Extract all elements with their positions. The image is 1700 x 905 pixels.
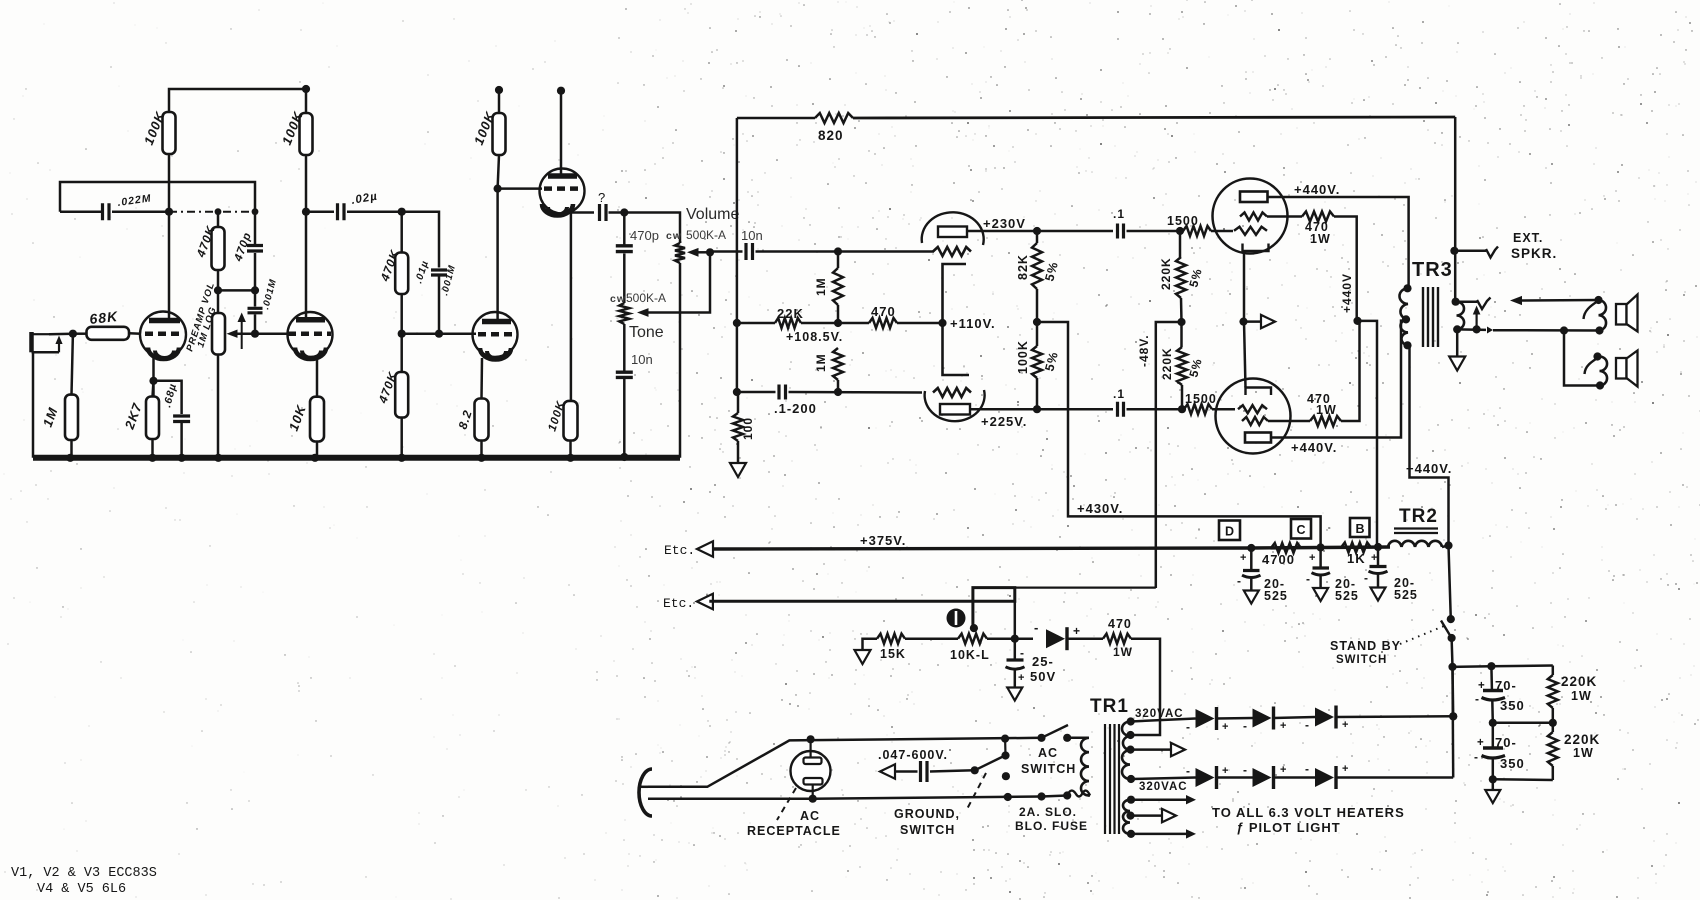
ground switch lever	[975, 756, 1004, 770]
svg-text:22K: 22K	[777, 306, 804, 321]
svg-text:-: -	[1474, 750, 1479, 764]
svg-text:+440V.: +440V.	[1406, 461, 1452, 476]
node ground switch common	[971, 766, 979, 774]
V2 plate bar	[296, 317, 325, 323]
svg-text:1M: 1M	[814, 353, 828, 372]
V3a cathode	[542, 204, 573, 216]
node rail 10K	[311, 454, 319, 462]
svg-text:+430V.: +430V.	[1077, 501, 1123, 516]
pentode V5	[1216, 379, 1291, 454]
wire wiper to V2 grid	[255, 332, 287, 335]
input jack	[29, 332, 34, 352]
resistor 8.2 V3b cathode	[475, 399, 489, 441]
wire V4 plate to TR3	[1268, 197, 1409, 288]
resistor 470 1W bias	[1103, 634, 1131, 644]
resistor 4700	[1271, 543, 1301, 553]
svg-text:+: +	[1240, 552, 1247, 564]
node lower plate/100K	[1033, 405, 1041, 413]
node spkr line branch	[1560, 326, 1568, 334]
svg-text:SWITCH: SWITCH	[1021, 762, 1076, 776]
node HV tap2	[1126, 731, 1134, 739]
triode V3b	[473, 312, 518, 357]
svg-text:Volume: Volume	[686, 206, 739, 223]
triode V3a	[540, 169, 585, 214]
svg-text:350: 350	[1500, 756, 1525, 771]
svg-text:Etc.: Etc.	[664, 543, 695, 558]
svg-text:Tone: Tone	[629, 324, 664, 341]
node cap70 top	[1487, 662, 1495, 670]
TR1 HV secondary	[1122, 722, 1130, 780]
svg-text:+: +	[1222, 765, 1229, 777]
node .1-200 lower grid	[834, 388, 842, 396]
V1 plate bar	[149, 318, 180, 324]
svg-text:525: 525	[1394, 588, 1418, 602]
resistor 470K grid leak	[400, 334, 403, 372]
ext spkr jack	[1454, 250, 1486, 253]
svg-text:GROUND,: GROUND,	[894, 807, 960, 821]
svg-text:1K: 1K	[1347, 551, 1366, 566]
svg-text:-: -	[1243, 763, 1248, 777]
svg-text:25-: 25-	[1032, 654, 1054, 669]
svg-text:350: 350	[1500, 698, 1525, 713]
wire standby vert	[1451, 667, 1454, 716]
wire -48V feed	[1156, 322, 1182, 588]
resistor 470K series	[400, 212, 403, 253]
node receptacle hot	[807, 735, 815, 743]
wire NFB vertical	[736, 118, 739, 392]
resistor 220K 1W upper	[1552, 666, 1555, 676]
svg-text:.1-200: .1-200	[774, 401, 817, 416]
node rail .68	[178, 454, 186, 462]
V1 cathode	[148, 348, 179, 360]
fuse 2A	[1037, 792, 1045, 800]
node PI cathode tap	[938, 319, 946, 327]
wire V3a grid	[498, 187, 542, 190]
tone wiper arrow	[637, 308, 649, 317]
wire AC neutral	[648, 797, 1042, 799]
node input grid junction	[69, 330, 77, 338]
V5 cathode box	[1246, 388, 1272, 396]
V3a plate bar	[548, 173, 577, 179]
wire V1 cathode lead	[152, 357, 155, 397]
node ac neutral under switch	[1004, 793, 1012, 801]
svg-text:+: +	[1371, 552, 1378, 564]
svg-text:10n: 10n	[741, 228, 763, 243]
node screens +440 junction	[1353, 317, 1361, 325]
svg-text:+: +	[1280, 764, 1287, 776]
node HV top	[1127, 717, 1135, 725]
node NFB/22K	[733, 319, 741, 327]
svg-text:10K-L: 10K-L	[950, 648, 990, 662]
lower ext jack	[1600, 357, 1608, 386]
resistor 100K 5%	[1036, 322, 1039, 346]
AC switch	[1037, 734, 1045, 742]
capacitor .1 lower	[1118, 402, 1124, 417]
capacitor 470p tone	[623, 213, 626, 245]
svg-text:ƒ PILOT LIGHT: ƒ PILOT LIGHT	[1236, 820, 1341, 835]
svg-text:V4 & V5 6L6: V4 & V5 6L6	[37, 882, 126, 897]
capacitor .022M feedback	[60, 182, 255, 212]
node wiper junction	[251, 330, 259, 338]
svg-text:-: -	[1306, 572, 1311, 586]
node box D	[1219, 521, 1240, 541]
resistor 470 PI tail	[838, 322, 869, 325]
svg-text:500K-A: 500K-A	[686, 228, 726, 242]
V2 grid dashes	[288, 331, 331, 336]
svg-text:SPKR.: SPKR.	[1511, 246, 1557, 261]
V3a grid dashes	[544, 186, 578, 191]
svg-text:+230V: +230V	[983, 216, 1026, 231]
wire PI upper plate	[967, 230, 1113, 233]
capacitor .1-200 coupling	[737, 391, 776, 394]
resistor 220K 5% upper	[1179, 231, 1182, 257]
capacitor 70-350 lower	[1492, 723, 1495, 747]
svg-text:cw: cw	[666, 230, 682, 242]
svg-text:220K: 220K	[1564, 732, 1600, 747]
svg-text:TR2: TR2	[1399, 506, 1438, 527]
capacitor 20-525 D	[1250, 548, 1253, 569]
svg-text:500K-A: 500K-A	[626, 291, 666, 305]
cathode arrow to heater ref	[1244, 320, 1262, 323]
svg-text:1500: 1500	[1185, 392, 1217, 406]
capacitor .001 wiper	[254, 290, 257, 306]
svg-text:AC: AC	[800, 809, 820, 823]
node TR3 sec top	[1452, 298, 1460, 306]
resistor 470 1W lower screen	[1268, 420, 1310, 423]
capacitor ground switch	[880, 764, 895, 778]
arrow Etc 375	[697, 541, 713, 556]
node TR2 right +440	[1444, 541, 1452, 549]
capacitor 10n tone bottom	[616, 372, 633, 377]
svg-text:RECEPTACLE: RECEPTACLE	[747, 824, 841, 838]
svg-text:+: +	[1478, 680, 1486, 692]
V4 plate box	[1240, 192, 1268, 203]
node rail 100K	[566, 454, 574, 462]
resistor 1500 upper	[1183, 226, 1211, 236]
TR3 core	[1423, 287, 1438, 347]
svg-text:820: 820	[818, 128, 844, 143]
svg-text:?: ?	[598, 190, 606, 205]
svg-text:Etc.: Etc.	[663, 596, 694, 611]
svg-text:1W: 1W	[1571, 689, 1592, 703]
svg-text:1W: 1W	[1113, 645, 1133, 659]
wire V3b plate lead	[496, 189, 499, 319]
potentiometer Tone 500K-A	[619, 303, 629, 324]
svg-text:AC: AC	[1038, 746, 1058, 760]
node ground switch top	[1001, 735, 1009, 743]
resistor 68K grid stopper	[73, 332, 87, 335]
svg-text:1W: 1W	[1310, 232, 1331, 246]
node volume wiper	[706, 248, 714, 256]
node bias wiper	[970, 624, 978, 632]
node C	[1317, 543, 1325, 551]
wire V3a cathode node	[570, 210, 573, 401]
node V1 cathode	[149, 377, 157, 385]
capacitor 20-525 C	[1319, 548, 1322, 567]
resistor 100K plate V2	[300, 113, 313, 155]
svg-text:+110V.: +110V.	[950, 316, 996, 331]
node V1/V2 B+ junction	[302, 85, 310, 93]
node rail 1M	[66, 454, 74, 462]
svg-text:SWITCH: SWITCH	[900, 823, 955, 837]
wire dash-dot grid-cap link	[169, 211, 255, 213]
resistor 100K plate V3b	[495, 86, 503, 94]
speaker 2	[1616, 358, 1627, 379]
resistor 82K 5%	[1036, 231, 1039, 243]
resistor 220K 5% lower	[1180, 322, 1183, 347]
wire V2 plate lead	[305, 212, 308, 318]
PI lower grid zigzag	[933, 388, 971, 397]
wire jack sleeve to ground rail	[32, 352, 35, 458]
node row1 out	[1449, 712, 1457, 720]
svg-text:220K: 220K	[1159, 257, 1173, 290]
node 220k mid	[1549, 719, 1557, 727]
svg-text:470: 470	[1108, 617, 1132, 631]
node 22K/470/1M	[834, 319, 842, 327]
V4 control grid	[1234, 227, 1267, 235]
capacitor 25-50V	[1014, 639, 1017, 659]
node V3b plate to V3a grid	[494, 185, 502, 193]
node 470p bottom	[251, 286, 259, 294]
volume wiper arrow	[687, 248, 699, 257]
main jack tip	[1456, 300, 1477, 303]
wire +440 TR2 to TR3 CT	[1410, 345, 1449, 545]
wire 470K-470p link	[218, 289, 255, 292]
svg-text:-: -	[1186, 764, 1191, 778]
wire B+ to node C	[1037, 322, 1321, 548]
node tone bottom rail	[620, 453, 628, 461]
wire V3a plate lead	[557, 87, 565, 95]
cathode bracket PI	[943, 264, 970, 375]
wire bias distribution	[709, 588, 1015, 629]
resistor 820 feedback	[737, 117, 815, 120]
node PI grid	[834, 247, 842, 255]
resistor 1M input	[72, 334, 73, 395]
node TR3 sec bottom	[1453, 325, 1461, 333]
svg-text:cw: cw	[610, 293, 626, 305]
resistor 100K cathode follower	[564, 401, 578, 441]
capacitor 70-350 upper	[1490, 666, 1493, 689]
resistor 22K	[737, 322, 775, 325]
svg-text:10n: 10n	[631, 352, 653, 367]
resistor 220K 1W lower	[1552, 723, 1555, 732]
node row1 junction	[1449, 712, 1457, 720]
capacitor .01 bright	[402, 212, 439, 268]
capacitor ? coupling	[600, 204, 607, 221]
resistor 2K7 V1 cathode	[153, 381, 154, 397]
node ground switch nc	[1002, 772, 1010, 780]
wire feedback takeoff vertical	[1454, 117, 1457, 302]
wire to lower ext jack	[1564, 331, 1600, 386]
node bias junction	[1011, 635, 1019, 643]
node main jack sleeve	[1473, 325, 1481, 333]
node NFB/.1-200	[733, 388, 741, 396]
resistor 10K V2 cathode	[310, 397, 324, 442]
svg-text:-48V.: -48V.	[1137, 334, 1151, 367]
node HV center	[1126, 746, 1134, 754]
wire TR3 sec bottom row	[1457, 328, 1486, 331]
svg-text:220K: 220K	[1160, 347, 1174, 380]
wire V5 cathode	[1244, 322, 1246, 388]
node 470K top	[215, 208, 222, 215]
cw direction arrow	[241, 319, 243, 349]
svg-text:525: 525	[1264, 589, 1288, 603]
wire grid row to V3b	[402, 332, 476, 335]
node rail 2K7	[148, 454, 156, 462]
V1 grid dashes	[145, 331, 184, 336]
node V1 plate / .022 tap	[165, 208, 173, 216]
svg-text:.047-600V.: .047-600V.	[878, 748, 948, 762]
wire main ground rail	[33, 455, 680, 461]
svg-text:-: -	[1020, 646, 1025, 660]
wire tone in to volume top	[624, 213, 680, 244]
capacitor 470p V1 interstage	[254, 212, 257, 246]
wire B+ rail V1/V2 plates	[169, 89, 306, 113]
wire V2 cathode lead	[316, 357, 319, 397]
V3b plate bar	[482, 319, 511, 325]
svg-text:-: -	[1305, 762, 1310, 776]
potentiometer 10K-L	[958, 634, 987, 644]
main jack arrow	[1475, 311, 1477, 329]
capacitor 20-525 B	[1377, 547, 1380, 565]
V4 screen grid	[1240, 213, 1267, 221]
svg-text:+440V: +440V	[1340, 273, 1354, 313]
svg-text:+: +	[1222, 721, 1229, 733]
svg-text:D: D	[1225, 525, 1234, 539]
svg-text:+: +	[1018, 672, 1025, 684]
node .02 out	[398, 208, 406, 216]
svg-text:70-: 70-	[1495, 678, 1517, 693]
triode PI upper	[922, 212, 984, 245]
svg-text:TR3: TR3	[1412, 259, 1453, 281]
svg-text:+: +	[1280, 720, 1287, 732]
node caps mid	[1489, 719, 1497, 727]
svg-text:+: +	[1073, 624, 1081, 638]
resistor 470 1W upper screen	[1267, 215, 1302, 218]
node box B	[1350, 518, 1370, 537]
svg-text:-: -	[1475, 692, 1480, 706]
V5 control grid	[1238, 405, 1267, 413]
svg-text:.1: .1	[1113, 207, 1125, 221]
upper ext jack	[1599, 300, 1607, 331]
capacitor 10n coupling PI	[710, 250, 743, 253]
svg-text:-: -	[1034, 620, 1039, 635]
capacitor .02 coupling V2-V3	[306, 210, 334, 213]
wire AC hot	[648, 738, 1042, 787]
node box C	[1291, 519, 1311, 539]
node TR3 primary mid	[1402, 315, 1410, 323]
svg-text:+: +	[1477, 737, 1485, 749]
wire V3b cathode lead	[480, 358, 483, 399]
wire V5 plate to TR3	[1271, 319, 1401, 437]
resistor 1M PI bias lower	[833, 348, 843, 380]
PI lower plate box	[940, 404, 970, 415]
wire heater ct arrow	[1131, 814, 1163, 817]
svg-text:-: -	[1237, 574, 1242, 588]
wire +375V rail	[713, 547, 1390, 549]
wire row2 to standby rail	[1451, 667, 1454, 778]
pentode V4	[1213, 179, 1288, 254]
V4 cathode box	[1243, 244, 1269, 252]
capacitor .68 V1 bypass	[154, 381, 182, 414]
svg-text:BLO. FUSE: BLO. FUSE	[1015, 819, 1088, 833]
wire ext line arrow	[1517, 299, 1599, 302]
triode V2	[288, 312, 333, 357]
svg-text:+440V.: +440V.	[1294, 182, 1340, 197]
svg-text:4700: 4700	[1262, 552, 1295, 567]
V3b grid dashes	[478, 332, 514, 337]
node .1/220K upper	[1176, 227, 1184, 235]
svg-text:SWITCH: SWITCH	[1336, 654, 1387, 666]
resistor 1M PI bias upper	[837, 252, 840, 269]
node caps bottom	[1489, 775, 1497, 783]
wiper arrow preamp vol	[227, 330, 238, 338]
node rail pot	[214, 454, 222, 462]
resistor 100K plate V1	[163, 112, 176, 154]
TR1 core	[1105, 724, 1119, 834]
svg-text:C: C	[1297, 523, 1306, 537]
node .1/220K lower	[1178, 405, 1186, 413]
svg-text:50V: 50V	[1030, 669, 1056, 684]
capacitor .1 upper	[1118, 224, 1124, 239]
svg-text:-: -	[1305, 718, 1310, 732]
AC receptacle	[791, 751, 831, 791]
svg-text:82K: 82K	[1016, 254, 1030, 280]
node 82K bottom B+ tap	[1033, 318, 1041, 326]
svg-text:100K: 100K	[1016, 340, 1030, 374]
TR1 heater winding	[1123, 800, 1130, 834]
node bright cap bottom	[435, 330, 443, 338]
svg-text:V1, V2 & V3 ECC83S: V1, V2 & V3 ECC83S	[11, 866, 157, 881]
node HV bottom	[1127, 775, 1135, 783]
svg-text:+: +	[1342, 763, 1349, 775]
node 470K bottom	[214, 286, 222, 294]
V2 cathode	[295, 348, 326, 360]
svg-text:-: -	[1243, 719, 1248, 733]
svg-text:-: -	[1186, 720, 1191, 734]
V3b cathode	[480, 348, 511, 359]
node D	[1247, 544, 1255, 552]
svg-text:525: 525	[1335, 589, 1359, 603]
svg-text:220K: 220K	[1561, 674, 1597, 689]
potentiometer Volume 500K-A	[675, 243, 685, 263]
svg-text:-: -	[1364, 571, 1369, 585]
triode V1	[140, 312, 186, 358]
svg-text:+108.5V.: +108.5V.	[786, 330, 843, 344]
svg-text:100: 100	[741, 417, 755, 440]
svg-text:+: +	[1309, 552, 1316, 564]
V5 screen grid	[1242, 417, 1268, 425]
node V2 plate / .02 tap	[302, 208, 310, 216]
node B	[1374, 543, 1382, 551]
wire heater bottom	[1131, 833, 1186, 836]
svg-text:B: B	[1356, 522, 1365, 536]
svg-text:+440V.: +440V.	[1291, 440, 1337, 455]
svg-text:TR1: TR1	[1090, 696, 1129, 717]
standby switch	[1449, 546, 1451, 620]
node V3b grid junction	[398, 330, 406, 338]
wire rectifier row 2	[1131, 778, 1196, 780]
V5 plate box	[1245, 433, 1271, 443]
resistor 470K V1 interstage	[217, 212, 220, 227]
svg-text:1W: 1W	[1573, 746, 1594, 760]
wire rectifier row 1	[1131, 719, 1196, 722]
triode PI lower	[925, 390, 985, 421]
svg-text:STAND BY: STAND BY	[1330, 639, 1401, 653]
svg-text:+: +	[1342, 719, 1349, 731]
TR1 primary	[1081, 738, 1089, 796]
svg-text:.1: .1	[1113, 387, 1125, 401]
